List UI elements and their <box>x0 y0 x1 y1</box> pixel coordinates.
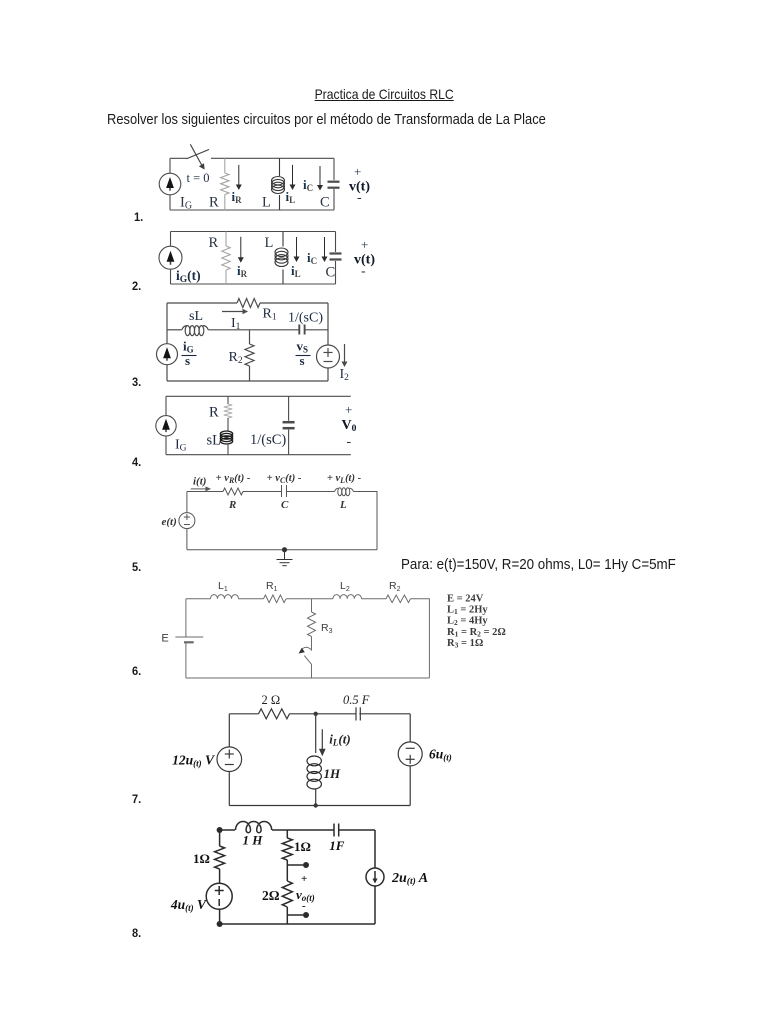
circuit 5: series RLC loop with e(t) source and ground <box>162 473 378 566</box>
voltage source 6u(t) <box>398 714 422 806</box>
svg-text:s: s <box>185 353 190 368</box>
current source IG <box>159 173 181 195</box>
svg-text:s: s <box>300 353 305 368</box>
svg-text:L1: L1 <box>218 580 228 593</box>
svg-text:2u(t) A: 2u(t) A <box>391 871 428 887</box>
battery E <box>175 599 203 678</box>
svg-text:I1: I1 <box>231 316 241 332</box>
svg-text:+: + <box>301 873 307 885</box>
switch in middle branch <box>299 647 312 678</box>
wire C6 top segment 4 <box>362 598 387 600</box>
resistor R <box>223 488 243 495</box>
wire C8 top segment 3 <box>339 829 375 831</box>
svg-text:L: L <box>339 499 347 511</box>
wire C5 top segment 4 and right vertical <box>354 492 378 550</box>
svg-text:+ vR(t) -: + vR(t) - <box>216 473 251 485</box>
wire C7 top segment 3 <box>359 713 410 715</box>
wire C4 top <box>166 395 351 397</box>
item number 8 <box>132 926 141 940</box>
right branch wire top <box>374 830 376 868</box>
document title <box>0 86 768 102</box>
item number 2 <box>132 279 141 293</box>
voltage source 4u(t) <box>206 883 232 924</box>
current source iG(t) <box>159 246 182 269</box>
wire C1 left vertical <box>169 158 171 210</box>
R + sL series branch <box>220 396 232 454</box>
svg-text:iC: iC <box>303 177 313 193</box>
circuit 6 parameter list <box>447 594 506 650</box>
arrow iL(t) <box>319 729 326 756</box>
svg-text:t = 0: t = 0 <box>187 171 210 185</box>
inductor L2 <box>333 595 361 599</box>
label vs over s fraction <box>296 339 311 368</box>
wire C6 top segment 5 and right vertical <box>411 599 430 678</box>
arrow iC <box>322 237 328 262</box>
svg-text:R2: R2 <box>229 350 243 366</box>
circuit 3: s-domain circuit with iG/s source, sL, R1, R2, 1/(sC), vs/s source <box>157 299 350 384</box>
svg-text:L: L <box>262 195 271 211</box>
label + V0 - output <box>342 402 357 450</box>
svg-text:R: R <box>209 235 219 251</box>
wire C5 top segment 3 <box>287 491 335 493</box>
svg-text:+: + <box>354 164 361 179</box>
svg-text:C: C <box>320 195 330 211</box>
arrow iR <box>238 237 244 263</box>
svg-text:R: R <box>209 405 219 421</box>
svg-text:4u(t) V: 4u(t) V <box>170 897 207 913</box>
item number 5 <box>132 560 141 574</box>
svg-text:iR: iR <box>232 189 243 205</box>
inductor L branch <box>272 158 285 210</box>
parameters note for circuit 5 <box>401 556 676 573</box>
svg-text:12u(t) V: 12u(t) V <box>172 753 215 769</box>
item number 4 <box>132 455 141 469</box>
node: top left junction <box>217 827 223 833</box>
wire C5 bottom <box>187 549 377 551</box>
resistor R2 <box>386 595 411 603</box>
svg-text:IG: IG <box>175 438 187 454</box>
resistor 2 ohm <box>259 709 290 719</box>
wire C7 top segment 1 <box>229 713 258 715</box>
svg-text:2Ω: 2Ω <box>262 888 280 903</box>
capacitor C <box>282 485 287 497</box>
item number 3 <box>132 375 141 389</box>
svg-text:+: + <box>345 402 352 417</box>
item number 6 <box>132 664 141 678</box>
svg-text:1 H: 1 H <box>243 833 264 848</box>
svg-text:iL: iL <box>291 263 301 279</box>
wire C5 top segment 1 <box>187 491 223 493</box>
resistor R branch <box>221 158 229 210</box>
wire C4 left vertical <box>165 396 167 454</box>
svg-text:6u(t): 6u(t) <box>429 747 452 763</box>
wire C6 top segment 3 <box>286 598 333 600</box>
svg-text:L: L <box>265 235 274 251</box>
middle branch: resistor 1 ohm <box>282 830 292 865</box>
svg-text:-: - <box>347 435 352 450</box>
instruction line <box>107 111 546 128</box>
inductor 1H <box>236 822 272 833</box>
svg-text:R1: R1 <box>263 307 277 323</box>
inductor 1H <box>307 756 321 766</box>
inductor L <box>335 488 339 491</box>
wire C3 right vertical <box>327 303 329 346</box>
capacitor C on right edge <box>328 158 340 210</box>
circuit 7: 12u(t)V source, 2ohm, 0.5F, 1H inductor, 6u(t) source <box>172 693 452 808</box>
wire C7 bottom <box>229 805 410 807</box>
svg-text:1F: 1F <box>329 838 345 853</box>
arrow I1 <box>222 309 248 315</box>
node: top middle junction <box>314 712 318 716</box>
inductor L1 <box>211 595 239 599</box>
capacitor 1/(sC) branch <box>283 396 295 454</box>
svg-text:sL: sL <box>189 309 203 324</box>
label iG over s fraction <box>182 339 197 368</box>
left branch: resistor 1 ohm <box>215 830 225 883</box>
svg-text:-: - <box>361 264 366 279</box>
wire C8 top segment 1 <box>220 829 235 831</box>
svg-text:i(t): i(t) <box>193 476 206 488</box>
inductor sL on middle wire <box>167 329 182 331</box>
wire C4 bottom <box>166 454 351 456</box>
svg-text:+ vL(t) -: + vL(t) - <box>327 473 362 485</box>
svg-text:R1: R1 <box>266 580 278 593</box>
current source iG/s <box>157 344 178 365</box>
svg-text:C: C <box>281 499 289 511</box>
svg-text:R2: R2 <box>389 580 401 593</box>
svg-text:1/(sC): 1/(sC) <box>250 432 286 448</box>
svg-text:sL: sL <box>207 433 222 449</box>
wire C6 bottom <box>186 677 430 679</box>
current source IG <box>156 416 176 436</box>
svg-text:1H: 1H <box>324 766 342 781</box>
wire C6 top segment 2 <box>239 598 264 600</box>
capacitor 1/(sC) on middle wire <box>299 325 304 335</box>
current source 2u(t) A <box>366 868 384 886</box>
svg-text:R: R <box>228 499 236 511</box>
resistor R2 middle branch <box>245 330 254 381</box>
resistor R1 <box>264 595 287 603</box>
voltage source 12u(t) <box>217 714 242 806</box>
wire C5 top segment 2 <box>243 491 282 493</box>
wire C6 top segment 1 <box>186 598 211 600</box>
wire C1 top main <box>211 157 334 159</box>
voltage source vs/s <box>317 345 340 368</box>
wire C8 bottom <box>220 923 375 925</box>
svg-text:2 Ω: 2 Ω <box>262 693 281 707</box>
svg-text:1Ω: 1Ω <box>193 851 210 866</box>
voltage source e(t) <box>179 492 195 550</box>
svg-text:L2: L2 <box>340 580 350 593</box>
item number 7 <box>132 792 141 806</box>
wire C3 bottom <box>167 380 328 382</box>
node: bottom left junction <box>217 921 223 927</box>
circuit 1: parallel RLC with switched current source <box>159 144 370 211</box>
node: vo+ terminal stub and dot <box>287 862 309 868</box>
circuit 6: E battery with L1 R1 L2 R2 ladder and switched R3 branch <box>161 580 429 678</box>
svg-text:L2 = 4Hy: L2 = 4Hy <box>447 616 488 628</box>
resistor R3 middle branch <box>308 599 316 651</box>
node: ground junction dot <box>282 547 287 552</box>
arrow iL <box>294 237 300 262</box>
svg-text:R3: R3 <box>321 622 333 635</box>
svg-text:R1 = R2 = 2Ω: R1 = R2 = 2Ω <box>447 627 506 639</box>
label + v(t) - output <box>349 164 370 206</box>
right branch wire bottom <box>374 886 376 924</box>
item number 1 <box>134 210 143 224</box>
wire C1 top-left stub <box>170 157 187 159</box>
ground symbol <box>277 550 293 566</box>
node: vo- terminal stub and dot <box>287 912 309 918</box>
svg-text:iC: iC <box>307 250 317 266</box>
inductor L branch <box>275 232 288 285</box>
svg-text:iL(t): iL(t) <box>329 732 350 748</box>
svg-text:IG: IG <box>180 195 192 212</box>
svg-text:E = 24V: E = 24V <box>447 594 484 605</box>
label + vo(t) - output <box>296 873 315 912</box>
arrow I2 <box>342 344 348 367</box>
arrow i(t) <box>191 486 211 491</box>
svg-text:V0: V0 <box>342 418 357 434</box>
wire C8 top segment 2 <box>272 829 334 831</box>
switch t=0 <box>187 144 210 169</box>
svg-text:I2: I2 <box>340 367 350 383</box>
wire C3 left vertical <box>166 303 168 381</box>
svg-text:1/(sC): 1/(sC) <box>288 311 323 326</box>
svg-text:+ vC(t) -: + vC(t) - <box>267 473 302 485</box>
capacitor 0.5F <box>356 707 360 720</box>
svg-text:R: R <box>209 195 219 211</box>
circuit 2: parallel RLC driven by iG(t) <box>159 232 375 286</box>
middle branch wire <box>315 714 317 753</box>
arrow iR <box>236 165 242 190</box>
arrow iL <box>290 165 296 190</box>
svg-text:+: + <box>361 237 368 252</box>
svg-text:-: - <box>357 191 362 206</box>
svg-text:-: - <box>302 900 306 912</box>
svg-text:e(t): e(t) <box>162 516 177 528</box>
label + v(t) - output <box>354 237 375 279</box>
wire C3 top with resistor R1 <box>167 302 237 304</box>
svg-text:1Ω: 1Ω <box>294 839 311 854</box>
svg-text:iG(t): iG(t) <box>176 268 201 285</box>
svg-text:L1 = 2Hy: L1 = 2Hy <box>447 605 488 617</box>
svg-text:E: E <box>161 633 168 645</box>
resistor R branch <box>222 232 230 285</box>
circuit 4: IG source with R+sL branch and 1/(sC), output V0 <box>156 396 357 454</box>
capacitor C on right edge <box>330 232 342 285</box>
svg-text:iR: iR <box>237 263 248 279</box>
middle branch: resistor 2 ohm <box>282 865 292 924</box>
wire C1 bottom <box>170 209 334 211</box>
wire C7 top segment 2 <box>290 713 357 715</box>
svg-text:C: C <box>326 265 336 281</box>
circuit 8: 4u(t)V source, 1H, two 1ohm, 2ohm with vo(t), 1F, 2u(t)A source <box>170 822 428 928</box>
node: bottom middle junction <box>314 803 318 807</box>
arrow iC <box>317 166 323 191</box>
capacitor 1F <box>334 824 339 837</box>
svg-text:iL: iL <box>286 189 296 205</box>
svg-text:0.5 F: 0.5 F <box>343 693 370 707</box>
wire C2 outer rectangle <box>171 231 336 233</box>
svg-text:R3 = 1Ω: R3 = 1Ω <box>447 638 483 650</box>
